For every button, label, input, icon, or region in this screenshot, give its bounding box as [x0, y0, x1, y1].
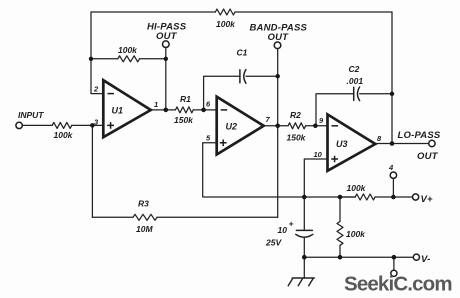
svg-text:R3: R3 [138, 199, 149, 209]
svg-text:R1: R1 [180, 94, 191, 104]
junction U3 pin 9 [313, 124, 318, 129]
junction C2 right [390, 92, 394, 96]
terminal BAND-PASS OUT [274, 42, 281, 49]
terminal INPUT [16, 122, 22, 128]
wire U3 output to LO-PASS terminal [375, 143, 428, 145]
terminal below V- [391, 270, 397, 276]
wire input line [22, 124, 103, 126]
svg-text:100k: 100k [216, 19, 236, 29]
svg-text:U1: U1 [112, 106, 124, 116]
svg-text:2: 2 [93, 85, 99, 94]
svg-text:V+: V+ [421, 194, 434, 205]
svg-text:100k: 100k [347, 183, 367, 193]
svg-text:SeekiC.com: SeekiC.com [344, 273, 452, 296]
junction U3 output [390, 141, 395, 146]
wire node B down to R3 [91, 125, 93, 217]
terminal LO-PASS OUT [429, 140, 435, 146]
svg-text:OUT: OUT [417, 151, 439, 162]
terminal V- [413, 254, 419, 260]
junction rail pin4 [391, 195, 396, 200]
svg-text:U3: U3 [336, 139, 348, 149]
junction C1 right [276, 74, 280, 78]
capacitor C2 [354, 87, 360, 101]
terminal V+ [413, 194, 419, 200]
wire terminal stub below V- [393, 257, 395, 270]
wire left vertical (top rail to U1 pin 2) [91, 12, 103, 94]
svg-text:INPUT: INPUT [18, 110, 44, 120]
capacitor C1 [240, 70, 246, 84]
svg-text:4: 4 [388, 163, 394, 172]
node B junction input [90, 123, 95, 128]
resistor 100k to V+ [355, 194, 375, 200]
resistor 100k vertical [337, 197, 343, 257]
wire electrolytic branch [303, 197, 305, 257]
wire ground stub [303, 257, 305, 278]
capacitor 10/25V electrolytic [296, 230, 313, 237]
junction feedback/HP [164, 57, 168, 61]
svg-text:V-: V- [421, 254, 431, 265]
junction U2 output [275, 124, 280, 129]
junction bottom cap [302, 255, 307, 260]
svg-text:150k: 150k [287, 133, 307, 143]
svg-text:C1: C1 [237, 48, 248, 58]
resistor R3 10M [133, 214, 157, 220]
resistor 100k feedback U1 [118, 56, 140, 62]
wire BAND-PASS vertical [277, 49, 279, 218]
svg-text:25V: 25V [265, 238, 282, 248]
wire C2 branch [316, 94, 392, 126]
svg-text:10: 10 [314, 150, 323, 159]
terminal pin 4 [390, 172, 396, 178]
svg-text:OUT: OUT [156, 31, 178, 42]
junction U1 output [164, 108, 169, 113]
op-amp U2 [217, 97, 264, 155]
wire C1 branch [204, 76, 278, 110]
wire right vertical from top rail to U3 output [391, 12, 393, 144]
svg-text:LO-PASS: LO-PASS [398, 130, 441, 141]
resistor R2 150k [288, 123, 306, 129]
junction bottom 100k [338, 255, 343, 260]
junction rail 100k top [338, 195, 343, 200]
svg-text:150k: 150k [174, 115, 194, 125]
wire top rail from node A to right rail [91, 11, 392, 13]
svg-text:6: 6 [206, 100, 211, 109]
svg-text:C2: C2 [349, 64, 360, 74]
wire U3 pin 10 return [304, 159, 327, 197]
svg-text:10: 10 [278, 225, 288, 235]
junction U2 pin 6 [201, 108, 206, 113]
ground [288, 278, 314, 286]
wire U2 output to U3 pin 9 [264, 125, 328, 127]
junction bottom V- [392, 255, 397, 260]
wire R3 bottom line [92, 216, 277, 218]
svg-text:OUT: OUT [268, 32, 290, 43]
resistor R1 150k [176, 107, 194, 113]
svg-text:100k: 100k [346, 229, 366, 239]
svg-text:100k: 100k [54, 130, 74, 140]
node A junction top-left [89, 57, 93, 61]
wire V+ rail [340, 196, 413, 198]
junction rail pin10/cap [302, 195, 307, 200]
svg-text:.001: .001 [347, 76, 364, 86]
svg-text:5: 5 [206, 134, 211, 143]
terminal HI-PASS OUT [163, 41, 170, 48]
svg-text:1: 1 [154, 100, 158, 109]
svg-text:R2: R2 [290, 110, 301, 120]
svg-text:100k: 100k [118, 45, 138, 55]
op-amp U3 [328, 114, 376, 170]
op-amp U1 [103, 80, 151, 137]
resistor 100k input [52, 122, 71, 128]
wire HI-PASS vertical [165, 48, 167, 110]
svg-text:9: 9 [319, 116, 324, 125]
svg-text:U2: U2 [226, 121, 238, 131]
svg-text:8: 8 [377, 134, 382, 143]
wire feedback line U1 [91, 58, 166, 60]
svg-text:7: 7 [266, 115, 271, 124]
wire V- rail [304, 256, 413, 258]
svg-text:10M: 10M [136, 224, 153, 234]
wire U1 output to U2 pin 6 [151, 109, 217, 111]
svg-text:+: + [289, 219, 294, 229]
wire U2 pin 5 return [203, 143, 356, 197]
resistor 100k top [215, 9, 235, 15]
wire pin 4 stub [392, 178, 394, 197]
